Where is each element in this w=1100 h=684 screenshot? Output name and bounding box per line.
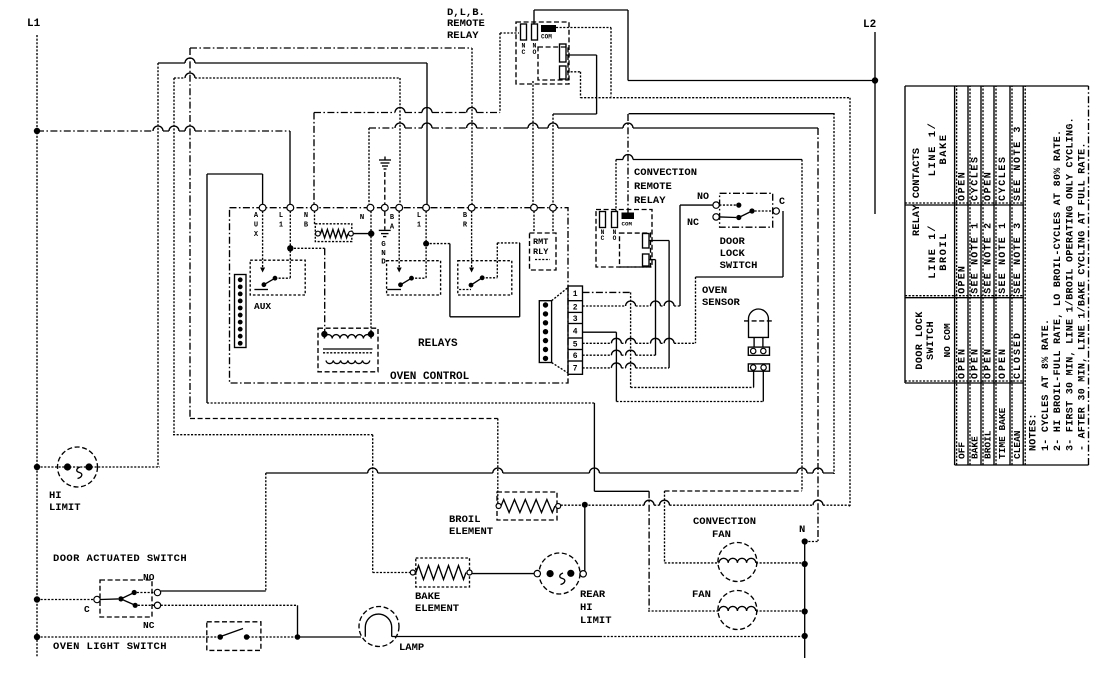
- svg-text:BAKE: BAKE: [970, 436, 981, 459]
- svg-text:1: 1: [279, 222, 283, 230]
- wire L2 vertical rail: [874, 32, 876, 214]
- transformer primary coil: [324, 335, 371, 339]
- svg-text:HI: HI: [49, 490, 62, 502]
- wire conv contacts: [649, 240, 669, 242]
- svg-text:U: U: [254, 222, 258, 230]
- oven control dashed box: [230, 208, 569, 383]
- svg-text:CYCLES: CYCLES: [971, 155, 982, 201]
- door lock NC contact: [713, 214, 719, 220]
- svg-text:BAKE: BAKE: [415, 591, 440, 603]
- svg-text:LAMP: LAMP: [399, 642, 424, 654]
- relay RMT RLY box: [530, 233, 557, 270]
- svg-text:- AFTER 30 MIN, LINE 1/BAKE CY: - AFTER 30 MIN, LINE 1/BAKE CYCLING AT F…: [1077, 142, 1089, 451]
- motor fan: [718, 591, 757, 630]
- ground stub: [384, 211, 386, 230]
- switch door lock switch box: [720, 193, 773, 227]
- svg-text:D: D: [381, 259, 386, 267]
- svg-text:2: 2: [573, 303, 578, 312]
- svg-text:FAN: FAN: [712, 529, 731, 541]
- wire pin2 to door lock NO: [583, 305, 681, 307]
- junction L1 top bus: [34, 128, 40, 134]
- svg-text:NC: NC: [143, 620, 155, 631]
- svg-text:L: L: [417, 212, 421, 220]
- heater bake element: [373, 572, 410, 574]
- svg-text:N: N: [799, 524, 805, 536]
- transformer secondary coil: [326, 361, 370, 364]
- wire DLB contact to RMT RLY terminal: [566, 54, 597, 56]
- wire pin4 to oven sensor: [583, 331, 617, 333]
- svg-text:BROIL: BROIL: [983, 430, 994, 459]
- svg-text:BAKE: BAKE: [938, 133, 950, 164]
- wire DLB relay top to L2: [628, 80, 875, 82]
- wires RMT RLY terminals: [533, 211, 535, 233]
- table relay contacts chart: [905, 86, 1089, 465]
- svg-text:1- CYCLES AT 8% RATE.: 1- CYCLES AT 8% RATE.: [1041, 319, 1052, 451]
- svg-text:ELEMENT: ELEMENT: [415, 603, 459, 615]
- junction L2: [872, 77, 878, 83]
- door actuated contacts: [34, 596, 40, 602]
- convection relay inner box: [620, 233, 651, 267]
- svg-text:L1: L1: [27, 18, 41, 30]
- svg-text:NO: NO: [697, 192, 709, 203]
- svg-text:NC: NC: [687, 218, 699, 229]
- svg-text:NO COM: NO COM: [942, 323, 953, 358]
- wire DLB COM to bus: [556, 27, 611, 29]
- wire main fan bus: [585, 504, 850, 506]
- svg-text:BROIL: BROIL: [449, 514, 481, 526]
- wire N terminal bus: [368, 128, 370, 204]
- wire drop x834: [833, 113, 835, 474]
- svg-text:TIME BAKE: TIME BAKE: [997, 407, 1008, 459]
- contact bar upper: [560, 44, 567, 62]
- switch HI LIMIT: [58, 447, 98, 487]
- svg-text:7: 7: [573, 364, 578, 373]
- wire convection COM riser: [629, 113, 834, 115]
- svg-text:3- FIRST 30 MIN, LINE 1/BROIL: 3- FIRST 30 MIN, LINE 1/BROIL OPERATING …: [1064, 117, 1076, 451]
- wire door switch NO riser: [266, 472, 834, 474]
- svg-text:OPEN: OPEN: [984, 171, 995, 201]
- svg-text:OPEN: OPEN: [998, 347, 1009, 379]
- svg-text:REMOTE: REMOTE: [447, 18, 485, 30]
- svg-text:4: 4: [573, 328, 578, 337]
- transformer in oven control: [318, 328, 378, 372]
- wire N terminal down to transformer: [370, 211, 372, 334]
- svg-text:O: O: [533, 49, 537, 56]
- junction lamp line: [295, 634, 301, 640]
- svg-text:RELAY: RELAY: [447, 30, 479, 42]
- wire lamp to N: [392, 636, 600, 638]
- svg-text:L2: L2: [863, 19, 876, 31]
- svg-text:OFF: OFF: [957, 442, 968, 459]
- wire convection fan feed: [665, 490, 803, 492]
- wire DLB lower contact to bus: [567, 71, 581, 73]
- oven control terminals: [259, 204, 266, 211]
- svg-text:LOCK: LOCK: [720, 248, 746, 260]
- svg-text:SEE NOTE 3: SEE NOTE 3: [1013, 222, 1024, 294]
- wire lamp line: [34, 634, 40, 640]
- svg-text:COM: COM: [541, 34, 552, 41]
- lamp: [359, 607, 399, 647]
- wire L1 relay circuit top: [158, 62, 427, 64]
- svg-text:SWITCH: SWITCH: [720, 260, 758, 272]
- junction resistor N: [368, 230, 374, 236]
- wire pin7 to convection relay: [583, 367, 670, 369]
- wire L1 to transformer primary: [287, 245, 293, 251]
- relay D,L,B remote relay box: [516, 22, 569, 84]
- svg-text:OPEN: OPEN: [958, 171, 969, 201]
- svg-text:OPEN: OPEN: [971, 347, 982, 379]
- ground symbol: [379, 229, 391, 231]
- svg-text:LIMIT: LIMIT: [580, 615, 612, 627]
- wire convection relay feed bus: [616, 159, 802, 161]
- relay switch box 1: [250, 260, 305, 295]
- wire pin6 to convection relay: [583, 354, 656, 356]
- wire N hook from bus: [805, 541, 818, 543]
- svg-text:AUX: AUX: [254, 301, 271, 312]
- switch rear hi limit: [472, 573, 535, 575]
- wire L1b to switch 2: [425, 211, 427, 278]
- svg-text:N: N: [304, 212, 308, 220]
- svg-text:NO: NO: [143, 572, 155, 583]
- svg-text:SEE NOTE 3: SEE NOTE 3: [1013, 125, 1024, 201]
- wire broil to rear hi limit: [584, 505, 586, 571]
- svg-text:CONVECTION: CONVECTION: [634, 167, 697, 179]
- svg-text:SWITCH: SWITCH: [926, 321, 937, 360]
- svg-text:DOOR: DOOR: [720, 236, 746, 248]
- svg-text:CLOSED: CLOSED: [1013, 331, 1024, 379]
- contact COM block: [541, 25, 556, 32]
- svg-text:OPEN: OPEN: [958, 347, 969, 379]
- door lock NO contact: [713, 202, 719, 208]
- wire drop x818 to N: [817, 128, 819, 542]
- contact bar lower conv: [643, 254, 650, 266]
- svg-text:CLEAN: CLEAN: [1012, 430, 1023, 459]
- svg-text:CYCLES: CYCLES: [998, 155, 1009, 201]
- door lock C contact: [773, 208, 779, 214]
- wire door actuated NC out: [161, 604, 298, 606]
- svg-text:RLY: RLY: [533, 247, 549, 257]
- svg-text:1: 1: [417, 222, 421, 230]
- wire L1 vertical rail: [36, 35, 38, 657]
- oven sensor connector 1: [748, 347, 769, 355]
- svg-text:RELAYS: RELAYS: [418, 338, 458, 350]
- svg-text:DOOR LOCK: DOOR LOCK: [915, 311, 926, 370]
- contact NO capsule: [532, 24, 538, 40]
- switch door actuated box: [100, 580, 152, 617]
- switch oven light: [207, 622, 261, 651]
- svg-text:O: O: [613, 235, 617, 242]
- svg-text:C: C: [522, 49, 526, 56]
- contact bar upper conv: [643, 234, 650, 249]
- wire resistor to N junction: [353, 233, 371, 235]
- svg-text:CONVECTION: CONVECTION: [693, 516, 756, 528]
- wire BR element circuit top: [190, 47, 472, 49]
- contact NC capsule: [521, 24, 527, 40]
- wire aux circuit to fan: [206, 174, 208, 403]
- svg-text:1: 1: [573, 290, 578, 299]
- svg-text:L: L: [279, 212, 283, 220]
- svg-text:N: N: [360, 214, 365, 222]
- relay switch box 2: [387, 261, 441, 295]
- svg-text:C: C: [601, 235, 605, 242]
- wire NB to DLB relay NC: [313, 113, 315, 205]
- wire drop to fan circuit x850: [849, 98, 851, 506]
- wire door actuated NO out: [161, 590, 266, 592]
- oven sensor connector 2: [748, 364, 769, 371]
- wire broil feed: [190, 418, 498, 420]
- contact bar lower: [560, 66, 567, 79]
- svg-text:OVEN LIGHT SWITCH: OVEN LIGHT SWITCH: [53, 641, 167, 653]
- wire BA circuit top: [174, 77, 400, 79]
- wire N vertical rail: [804, 542, 806, 659]
- svg-text:OPEN: OPEN: [984, 347, 995, 379]
- junction broil output: [582, 502, 588, 508]
- svg-text:RELAY: RELAY: [634, 195, 666, 207]
- relay inner contact box: [538, 47, 568, 80]
- wire bus L1 feed: [37, 130, 290, 132]
- aux connector strip: [235, 275, 247, 348]
- svg-text:RELAY CONTACTS: RELAY CONTACTS: [911, 148, 923, 236]
- svg-text:C: C: [779, 197, 785, 208]
- svg-text:RMT: RMT: [533, 237, 548, 247]
- svg-text:COM: COM: [622, 221, 633, 228]
- relay switch box 3: [458, 261, 512, 295]
- contact COM block conv: [622, 213, 635, 220]
- svg-text:REMOTE: REMOTE: [634, 181, 672, 193]
- heater broil element: [497, 492, 557, 520]
- contact NC capsule conv: [600, 212, 606, 228]
- svg-text:5: 5: [573, 341, 578, 350]
- connector dot strip: [539, 301, 551, 363]
- ground symbol above oven control: [384, 172, 386, 204]
- svg-text:SEE NOTE 1: SEE NOTE 1: [998, 222, 1009, 294]
- wire bake feed: [173, 434, 373, 436]
- wire pin5 to door lock C: [583, 342, 696, 344]
- svg-text:6: 6: [573, 352, 578, 361]
- svg-text:OVEN CONTROL: OVEN CONTROL: [390, 371, 470, 383]
- svg-text:REAR: REAR: [580, 589, 606, 601]
- connector pin strip 1-7: [568, 286, 583, 374]
- svg-text:NOTES:: NOTES:: [1029, 413, 1040, 451]
- relay convection remote relay box: [596, 210, 652, 268]
- wire drop x802: [801, 160, 803, 492]
- svg-text:HI: HI: [580, 602, 593, 614]
- svg-text:N: N: [381, 250, 386, 258]
- svg-text:OPEN: OPEN: [958, 265, 969, 294]
- svg-text:3: 3: [573, 315, 578, 324]
- wire pin1 to oven sensor: [583, 291, 631, 293]
- svg-text:BROIL: BROIL: [938, 232, 950, 271]
- svg-text:SEE NOTE 2: SEE NOTE 2: [984, 222, 995, 294]
- svg-text:ELEMENT: ELEMENT: [449, 526, 493, 538]
- svg-text:G: G: [381, 241, 386, 249]
- door lock contacts and arm: [719, 204, 736, 206]
- svg-text:FAN: FAN: [692, 589, 711, 601]
- oven sensor bulb: [749, 309, 769, 337]
- motor convection fan: [718, 543, 757, 582]
- svg-text:LIMIT: LIMIT: [49, 502, 81, 514]
- svg-text:SENSOR: SENSOR: [702, 297, 741, 309]
- resistor in oven control: [315, 224, 352, 242]
- svg-text:OVEN: OVEN: [702, 285, 727, 297]
- contact NO capsule conv: [612, 212, 618, 228]
- transformer core: [323, 348, 373, 350]
- svg-text:DOOR ACTUATED SWITCH: DOOR ACTUATED SWITCH: [53, 553, 187, 565]
- svg-text:2- HI BROIL-FULL RATE, LO BROI: 2- HI BROIL-FULL RATE, LO BROIL-CYCLES A…: [1053, 130, 1064, 451]
- svg-text:C: C: [84, 604, 90, 615]
- wire L1b loop to switch 3: [426, 243, 450, 245]
- svg-text:SEE NOTE 1: SEE NOTE 1: [971, 222, 982, 294]
